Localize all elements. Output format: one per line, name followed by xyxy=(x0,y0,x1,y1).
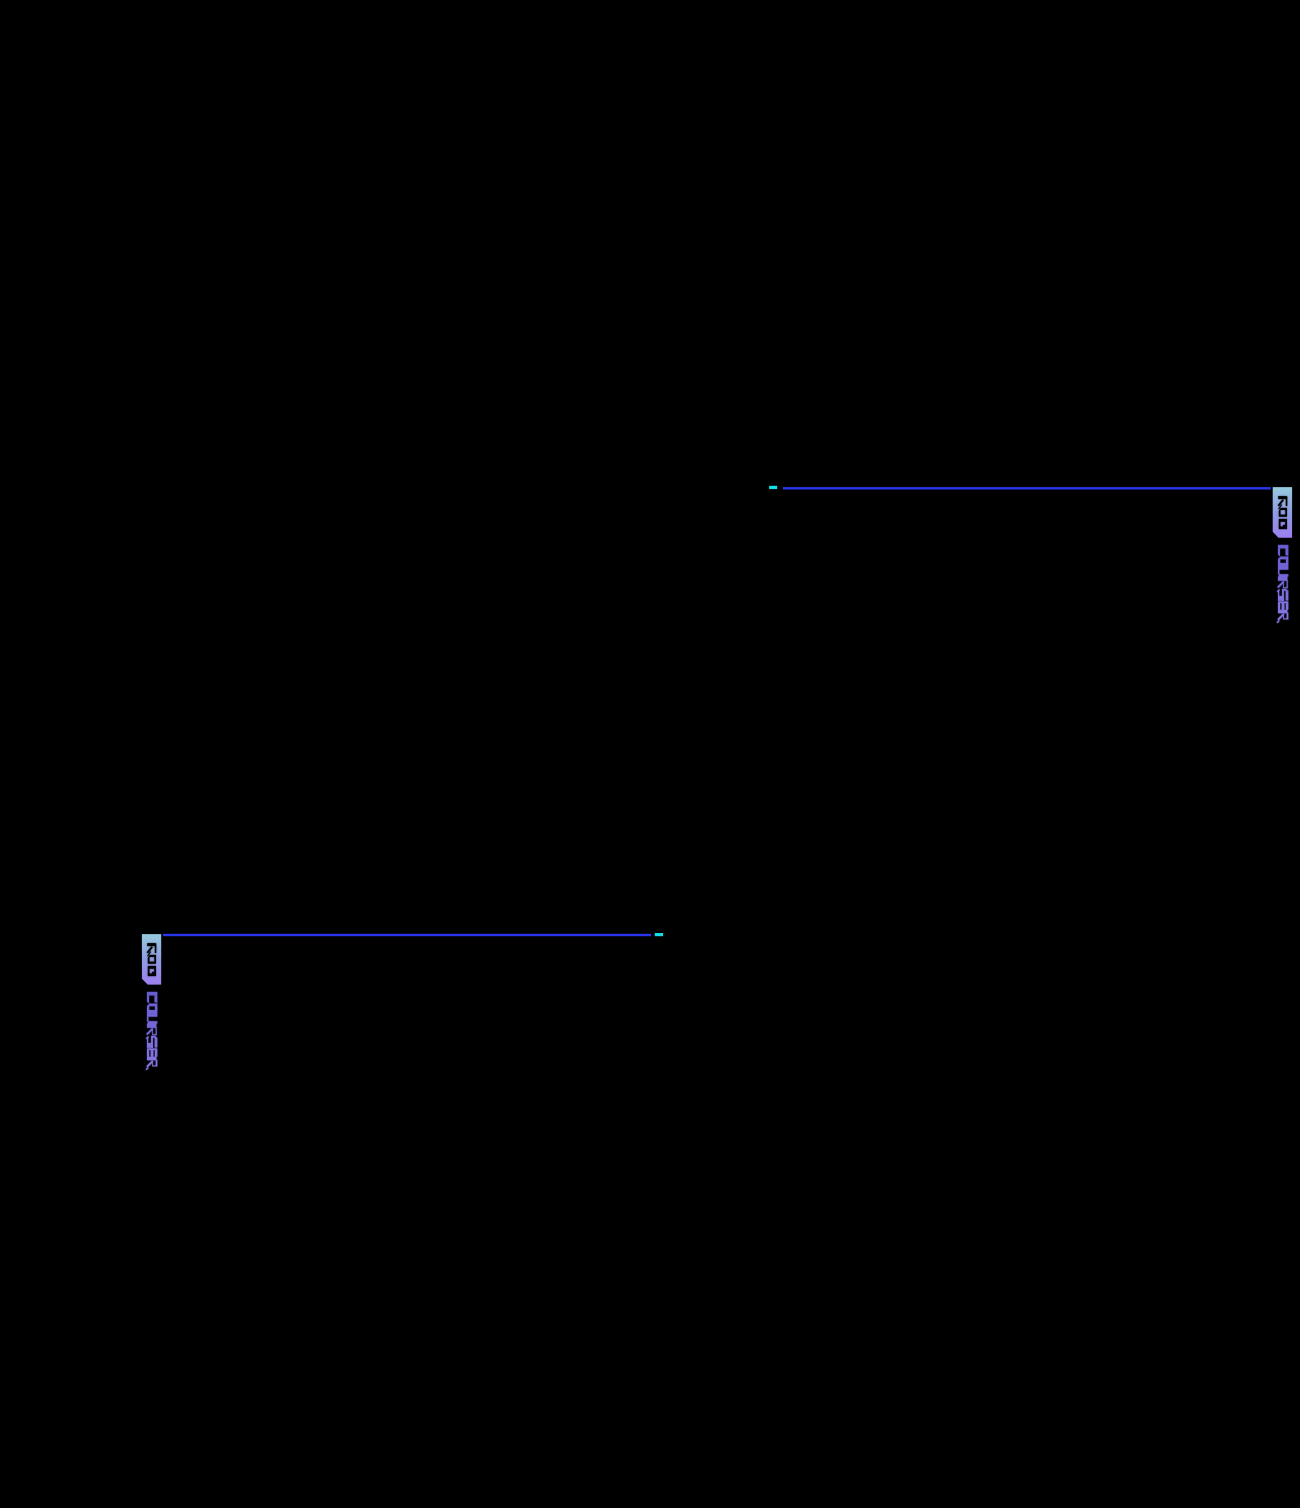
badge xyxy=(142,934,161,985)
ROG text xyxy=(147,943,156,976)
blue line xyxy=(163,934,651,936)
cyan dash xyxy=(769,486,777,489)
cyan dash xyxy=(655,933,663,936)
blue line xyxy=(783,487,1271,489)
COURSER xyxy=(146,992,157,1070)
ROG text xyxy=(1278,496,1287,529)
badge xyxy=(1273,487,1292,538)
COURSER xyxy=(1277,545,1288,623)
